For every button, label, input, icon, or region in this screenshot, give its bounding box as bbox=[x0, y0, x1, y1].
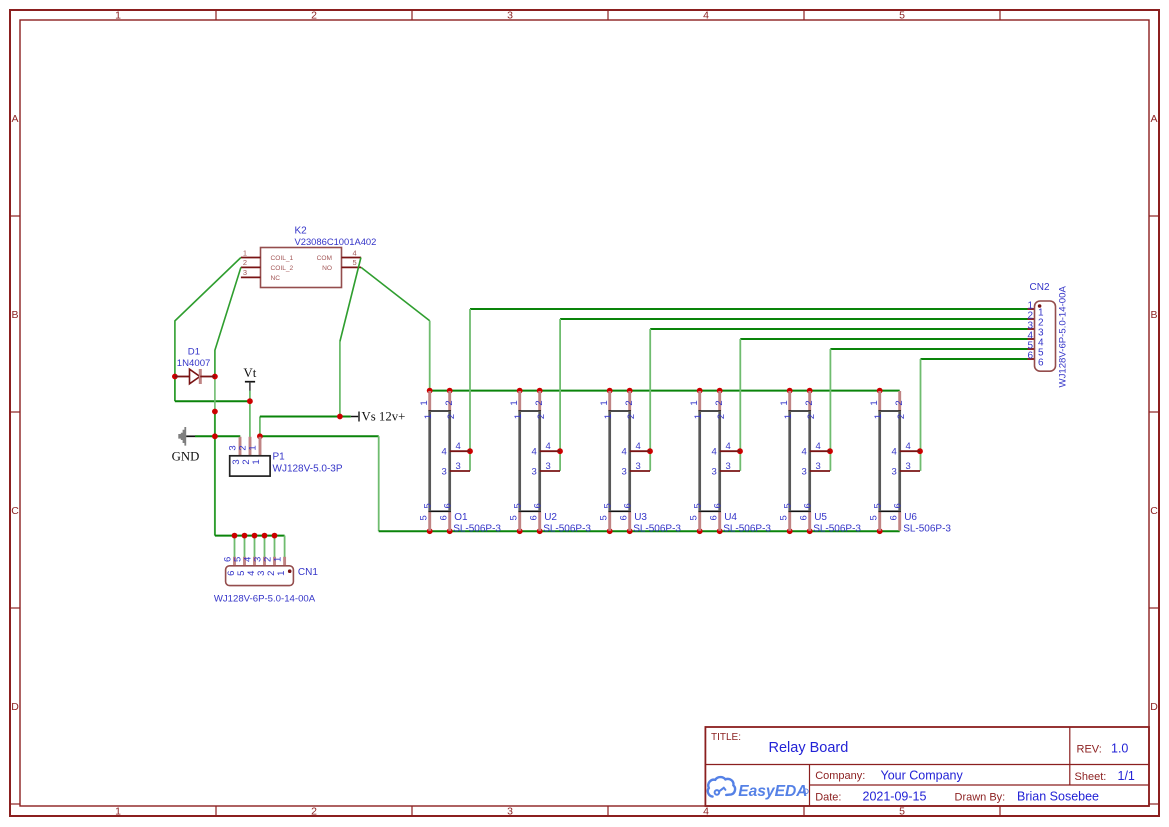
svg-text:U2: U2 bbox=[544, 512, 557, 523]
svg-text:1.0: 1.0 bbox=[1111, 742, 1128, 756]
wire K2 pin5 to top bus bbox=[361, 267, 430, 390]
svg-text:4: 4 bbox=[442, 447, 447, 458]
junctions U pin4 bbox=[467, 448, 923, 454]
svg-text:4: 4 bbox=[703, 805, 709, 817]
svg-text:SL-506P-3: SL-506P-3 bbox=[723, 524, 771, 535]
svg-text:1: 1 bbox=[603, 414, 614, 419]
wire K2 pin4 to Vs 12v+ bbox=[340, 258, 361, 417]
svg-text:2: 2 bbox=[536, 414, 547, 419]
svg-text:B: B bbox=[11, 309, 18, 321]
svg-text:3: 3 bbox=[532, 466, 537, 477]
svg-text:2: 2 bbox=[714, 400, 725, 405]
svg-text:5: 5 bbox=[509, 515, 520, 520]
svg-text:1: 1 bbox=[783, 414, 794, 419]
connector CN2 WJ128V-6P-5.0-14-00A bbox=[1027, 282, 1068, 387]
svg-text:SL-506P-3: SL-506P-3 bbox=[453, 524, 501, 535]
junction D1 cathode bbox=[212, 374, 218, 380]
svg-text:WJ128V-6P-5.0-14-00A: WJ128V-6P-5.0-14-00A bbox=[1057, 286, 1068, 388]
connector CN1 WJ128V-6P-5.0-14-00A bbox=[214, 557, 319, 605]
svg-text:D1: D1 bbox=[188, 347, 200, 358]
svg-text:6: 6 bbox=[619, 515, 630, 520]
svg-text:2: 2 bbox=[806, 414, 817, 419]
svg-text:1: 1 bbox=[689, 400, 700, 405]
svg-text:2: 2 bbox=[311, 9, 317, 21]
junctions bottom bus bbox=[427, 528, 883, 534]
svg-text:5: 5 bbox=[779, 515, 790, 520]
svg-text:3: 3 bbox=[507, 805, 513, 817]
svg-text:6: 6 bbox=[1027, 351, 1033, 362]
svg-text:5: 5 bbox=[783, 503, 794, 508]
svg-text:SL-506P-3: SL-506P-3 bbox=[903, 524, 951, 535]
svg-text:COIL_2: COIL_2 bbox=[271, 265, 294, 272]
wire K2 pin2 to D1 cathode bbox=[215, 267, 241, 376]
svg-text:3: 3 bbox=[892, 466, 897, 477]
svg-text:1: 1 bbox=[243, 248, 247, 257]
svg-text:U6: U6 bbox=[904, 512, 917, 523]
svg-text:4: 4 bbox=[892, 447, 897, 458]
wire GND junction down to CN1 bbox=[215, 436, 285, 557]
svg-text:U3: U3 bbox=[634, 512, 647, 523]
svg-text:2: 2 bbox=[894, 400, 905, 405]
wire P1 pin1 node to bottom bus bbox=[260, 436, 379, 531]
junction P1 pin1 bbox=[257, 433, 263, 439]
svg-text:NC: NC bbox=[271, 275, 281, 282]
wire CN2 pin6 to U6 pins 3,4 bbox=[921, 359, 1028, 471]
svg-text:5: 5 bbox=[419, 515, 430, 520]
wire Vt node to P1 pin2 bbox=[249, 401, 251, 437]
junctions CN1 bus bbox=[232, 533, 278, 539]
svg-text:4: 4 bbox=[816, 441, 821, 452]
svg-text:1: 1 bbox=[273, 557, 284, 562]
svg-text:GND: GND bbox=[172, 450, 200, 464]
svg-text:B: B bbox=[1150, 309, 1157, 321]
junction Vt node bbox=[247, 398, 253, 404]
svg-text:1: 1 bbox=[115, 805, 121, 817]
svg-text:2: 2 bbox=[444, 400, 455, 405]
svg-text:6: 6 bbox=[709, 515, 720, 520]
svg-text:5: 5 bbox=[899, 9, 905, 21]
svg-text:5: 5 bbox=[423, 503, 434, 508]
svg-text:Your Company: Your Company bbox=[881, 769, 964, 783]
svg-text:5: 5 bbox=[899, 805, 905, 817]
svg-text:1: 1 bbox=[599, 400, 610, 405]
svg-text:A: A bbox=[11, 113, 18, 125]
svg-text:Vt: Vt bbox=[243, 365, 256, 380]
component U2 SL-506P-3 bbox=[509, 391, 592, 535]
svg-text:3: 3 bbox=[507, 9, 513, 21]
wire Vs 12v+ horizontal bbox=[260, 416, 351, 418]
svg-text:Date:: Date: bbox=[815, 792, 841, 804]
junction GND line bbox=[212, 433, 218, 439]
svg-text:6: 6 bbox=[803, 503, 814, 508]
svg-text:COM: COM bbox=[317, 255, 332, 262]
svg-text:1/1: 1/1 bbox=[1118, 769, 1135, 783]
svg-text:5: 5 bbox=[693, 503, 704, 508]
svg-text:6: 6 bbox=[799, 515, 810, 520]
wire CN2 pin3 to U3 pins 3,4 bbox=[650, 329, 1027, 471]
svg-text:3: 3 bbox=[906, 461, 911, 472]
svg-text:EasyEDA: EasyEDA bbox=[738, 783, 807, 800]
svg-text:Vs 12v+: Vs 12v+ bbox=[362, 410, 406, 424]
svg-text:2: 2 bbox=[624, 400, 635, 405]
junction Vs flag bbox=[337, 414, 343, 420]
svg-text:4: 4 bbox=[546, 441, 551, 452]
svg-text:3: 3 bbox=[816, 461, 821, 472]
svg-text:REV:: REV: bbox=[1077, 744, 1102, 756]
svg-text:3: 3 bbox=[622, 466, 627, 477]
svg-text:WJ128V-5.0-3P: WJ128V-5.0-3P bbox=[273, 464, 343, 475]
junctions top bus bbox=[427, 388, 883, 394]
svg-text:TITLE:: TITLE: bbox=[711, 732, 741, 743]
svg-text:4: 4 bbox=[353, 248, 357, 257]
svg-text:3: 3 bbox=[456, 461, 461, 472]
svg-text:Brian Sosebee: Brian Sosebee bbox=[1017, 790, 1099, 804]
svg-text:1: 1 bbox=[276, 571, 287, 576]
svg-text:1: 1 bbox=[693, 414, 704, 419]
wire CN2 pin2 to U2 pins 3,4 bbox=[560, 319, 1027, 471]
svg-text:CN2: CN2 bbox=[1030, 282, 1050, 293]
svg-text:A: A bbox=[1150, 113, 1157, 125]
svg-text:U4: U4 bbox=[724, 512, 737, 523]
ground GND bbox=[172, 427, 200, 464]
svg-text:1: 1 bbox=[115, 9, 121, 21]
svg-text:3: 3 bbox=[726, 461, 731, 472]
svg-text:6: 6 bbox=[1038, 358, 1044, 369]
svg-text:5: 5 bbox=[353, 258, 357, 267]
wire top bus (U pins 1,2) bbox=[430, 390, 900, 392]
svg-text:1: 1 bbox=[247, 445, 258, 450]
diode D1 1N4007 bbox=[175, 347, 215, 385]
svg-text:4: 4 bbox=[802, 447, 807, 458]
svg-text:2: 2 bbox=[243, 258, 247, 267]
svg-text:K2: K2 bbox=[295, 226, 308, 237]
svg-text:6: 6 bbox=[533, 503, 544, 508]
svg-text:3: 3 bbox=[243, 268, 247, 277]
svg-text:1: 1 bbox=[513, 414, 524, 419]
svg-text:1N4007: 1N4007 bbox=[177, 358, 211, 369]
junction D1 anode bbox=[172, 374, 178, 380]
svg-text:3: 3 bbox=[442, 466, 447, 477]
net flag Vs 12v+ bbox=[351, 410, 406, 424]
component O1 SL-506P-3 bbox=[419, 391, 502, 535]
svg-text:CN1: CN1 bbox=[298, 567, 318, 578]
svg-text:SL-506P-3: SL-506P-3 bbox=[813, 524, 861, 535]
svg-text:O1: O1 bbox=[454, 512, 468, 523]
svg-text:2: 2 bbox=[626, 414, 637, 419]
svg-text:1: 1 bbox=[423, 414, 434, 419]
svg-text:2: 2 bbox=[896, 414, 907, 419]
svg-text:NO: NO bbox=[322, 265, 332, 272]
svg-text:5: 5 bbox=[599, 515, 610, 520]
svg-text:2: 2 bbox=[446, 414, 457, 419]
svg-text:5: 5 bbox=[869, 515, 880, 520]
svg-text:COIL_1: COIL_1 bbox=[271, 255, 294, 262]
svg-text:6: 6 bbox=[529, 515, 540, 520]
EasyEDA logo bbox=[708, 777, 808, 800]
svg-text:4: 4 bbox=[636, 441, 641, 452]
svg-text:SL-506P-3: SL-506P-3 bbox=[543, 524, 591, 535]
svg-text:2: 2 bbox=[534, 400, 545, 405]
svg-text:6: 6 bbox=[439, 515, 450, 520]
svg-text:1: 1 bbox=[509, 400, 520, 405]
svg-text:2: 2 bbox=[804, 400, 815, 405]
svg-text:1: 1 bbox=[869, 400, 880, 405]
svg-text:2: 2 bbox=[716, 414, 727, 419]
svg-text:5: 5 bbox=[513, 503, 524, 508]
svg-text:6: 6 bbox=[443, 503, 454, 508]
svg-text:5: 5 bbox=[689, 515, 700, 520]
junction wire joint bbox=[212, 409, 218, 415]
svg-text:1: 1 bbox=[419, 400, 430, 405]
svg-text:4: 4 bbox=[726, 441, 731, 452]
svg-text:C: C bbox=[1150, 505, 1158, 517]
svg-text:1: 1 bbox=[873, 414, 884, 419]
wire Vs line down to P1 pin1 bbox=[259, 417, 261, 437]
wire D1 anode down to Vt node bbox=[175, 377, 250, 402]
svg-text:6: 6 bbox=[713, 503, 724, 508]
wire GND to P1 pin3 bbox=[195, 435, 240, 437]
wire bottom bus (GND to U pins 5,6) bbox=[379, 530, 900, 532]
svg-text:U5: U5 bbox=[814, 512, 827, 523]
svg-text:5: 5 bbox=[603, 503, 614, 508]
svg-text:3: 3 bbox=[636, 461, 641, 472]
net flag Vt bbox=[243, 365, 256, 391]
svg-text:D: D bbox=[1150, 701, 1158, 713]
svg-text:Company:: Company: bbox=[815, 770, 865, 782]
wire Vt flag to node bbox=[249, 390, 251, 401]
svg-text:4: 4 bbox=[532, 447, 537, 458]
svg-text:SL-506P-3: SL-506P-3 bbox=[633, 524, 681, 535]
wire CN2 pin1 to O1 pins 3,4 bbox=[470, 309, 1028, 471]
wire D1 cathode down bbox=[214, 377, 216, 412]
svg-text:6: 6 bbox=[893, 503, 904, 508]
svg-text:1: 1 bbox=[251, 459, 262, 464]
svg-text:1: 1 bbox=[779, 400, 790, 405]
svg-text:D: D bbox=[11, 701, 19, 713]
wire CN2 pin4 to U4 pins 3,4 bbox=[740, 339, 1027, 471]
svg-text:4: 4 bbox=[622, 447, 627, 458]
svg-text:V23086C1001A402: V23086C1001A402 bbox=[295, 236, 377, 247]
svg-text:2: 2 bbox=[311, 805, 317, 817]
svg-text:3: 3 bbox=[802, 466, 807, 477]
component U5 SL-506P-3 bbox=[779, 391, 862, 535]
svg-text:6: 6 bbox=[889, 515, 900, 520]
title block bbox=[705, 727, 1149, 806]
wire to GND junction bbox=[214, 412, 216, 437]
svg-text:Relay Board: Relay Board bbox=[769, 740, 849, 756]
svg-text:WJ128V-6P-5.0-14-00A: WJ128V-6P-5.0-14-00A bbox=[214, 594, 316, 605]
svg-text:5: 5 bbox=[873, 503, 884, 508]
svg-text:4: 4 bbox=[906, 441, 911, 452]
svg-text:C: C bbox=[11, 505, 19, 517]
svg-text:3: 3 bbox=[546, 461, 551, 472]
svg-text:Sheet:: Sheet: bbox=[1075, 771, 1107, 783]
wire stubs CN1 pins 2-6 bbox=[235, 536, 275, 557]
svg-text:P1: P1 bbox=[273, 452, 286, 463]
svg-text:4: 4 bbox=[703, 9, 709, 21]
component U4 SL-506P-3 bbox=[689, 391, 772, 535]
svg-text:6: 6 bbox=[623, 503, 634, 508]
connector P1 WJ128V-5.0-3P bbox=[227, 437, 342, 476]
component U3 SL-506P-3 bbox=[599, 391, 682, 535]
svg-text:3: 3 bbox=[712, 466, 717, 477]
svg-text:4: 4 bbox=[712, 447, 717, 458]
svg-text:4: 4 bbox=[456, 441, 461, 452]
wire CN2 pin5 to U5 pins 3,4 bbox=[830, 349, 1027, 471]
component U6 SL-506P-3 bbox=[869, 391, 952, 535]
svg-text:2021-09-15: 2021-09-15 bbox=[863, 790, 927, 804]
relay K2 bbox=[241, 226, 376, 288]
svg-text:Drawn By:: Drawn By: bbox=[955, 792, 1006, 804]
wire K2 pin1 to D1 anode bbox=[175, 258, 241, 377]
